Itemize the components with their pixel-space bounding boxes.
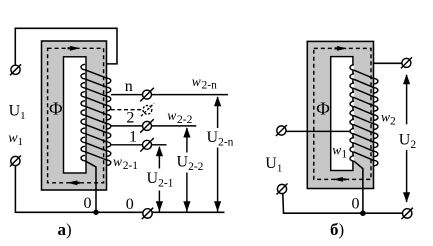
tap n terminal circle [140, 88, 154, 102]
tap n line (a) [111, 94, 143, 96]
dashed tap terminal circle [141, 103, 154, 116]
svg-text:Ф: Ф [49, 98, 63, 118]
tap 2 terminal circle [140, 119, 154, 133]
flux path (a) dashed loop [48, 48, 104, 183]
tap n extension line to U2-n [152, 94, 229, 96]
wire from left-bottom terminal to bottom bus (b) [283, 194, 403, 214]
flux arrow bottom (a) [67, 180, 77, 185]
U2-1 arrow [156, 146, 163, 212]
svg-text:1: 1 [129, 128, 137, 145]
tap 2 line (a) [111, 125, 143, 127]
svg-text:w: w [113, 154, 122, 169]
tap 1 terminal circle [140, 138, 154, 152]
U2-2 arrow [183, 127, 190, 211]
tap 1 extension line [152, 144, 167, 146]
core (b) window [331, 57, 353, 171]
svg-text:2-2: 2-2 [177, 114, 193, 126]
flux arrow top (b) [337, 46, 347, 51]
diagonals [85, 70, 107, 78]
junction dot (b) [360, 210, 366, 216]
svg-text:Ф: Ф [316, 98, 330, 118]
tap 1 line (a) [111, 144, 143, 146]
junction dot (a) [93, 210, 98, 215]
left bumps [350, 65, 354, 70]
terminal 0 (a) [142, 208, 153, 219]
flux arrow bottom (b) [333, 177, 343, 182]
diagonals [354, 70, 374, 78]
svg-text:б): б) [330, 220, 344, 239]
terminal left-bottom (b) [277, 184, 288, 195]
U2-n arrow [214, 96, 221, 212]
core (b) outer limb [307, 41, 373, 188]
top wire to terminal (b) [374, 62, 402, 64]
svg-text:w: w [167, 108, 176, 123]
coil (a): winding on right limb [81, 64, 111, 165]
svg-text:2-n: 2-n [202, 80, 218, 92]
left bumps [81, 64, 85, 69]
dashed tap line (a) [111, 109, 143, 111]
left wire to coil (b) [286, 130, 350, 132]
svg-text:0: 0 [126, 196, 134, 213]
coil bottom exit wire (a) [85, 161, 96, 213]
core (a) window [64, 57, 87, 173]
terminal T1 (a) [10, 64, 21, 75]
terminal 0 bottom-right (b) [402, 208, 413, 219]
wire from T2 down to bottom bus (a) [15, 166, 224, 213]
right bumps [107, 78, 111, 83]
core (a) outer limb [42, 41, 107, 190]
wire from terminal U1 top up and over to coil top (a) [15, 28, 117, 65]
flux path (b) dashed loop [314, 48, 371, 179]
coil bottom exit wire (b) [354, 161, 363, 213]
flux arrow top (a) [70, 46, 80, 51]
terminal left-top (b) [276, 125, 287, 136]
svg-text:2: 2 [126, 110, 134, 127]
terminal top-right (b) [401, 57, 412, 68]
svg-text:n: n [125, 78, 133, 95]
terminal T2 (a) [10, 156, 21, 167]
coil (b): winding on right limb [350, 65, 378, 166]
right bumps [374, 79, 378, 84]
tap 2 extension line [152, 125, 197, 127]
U2 arrow (b) [403, 74, 410, 203]
svg-text:2-1: 2-1 [123, 160, 139, 172]
svg-text:w: w [192, 74, 201, 89]
svg-text:0: 0 [352, 196, 360, 213]
svg-text:а): а) [58, 220, 72, 239]
svg-text:0: 0 [84, 195, 92, 212]
